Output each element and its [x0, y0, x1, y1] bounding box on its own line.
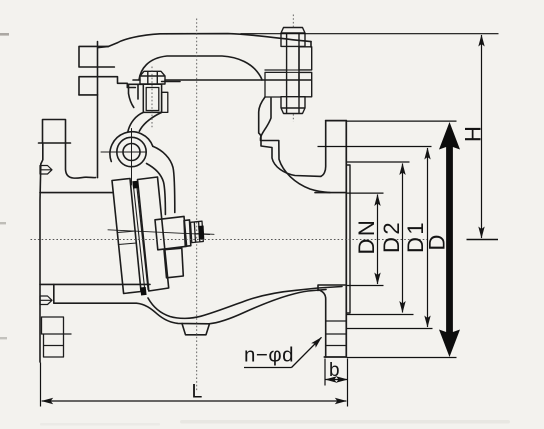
D2 dimension line — [402, 164, 404, 313]
stud bottom nut — [281, 97, 305, 114]
inlet bore top line — [40, 192, 113, 194]
disc nut — [191, 221, 204, 242]
gasket black square top — [132, 181, 138, 189]
left flange bolt ladder — [42, 317, 72, 357]
hinge arm inner curve — [147, 164, 166, 215]
disc guide tab — [164, 248, 183, 278]
right flange bottom edge — [324, 356, 346, 358]
right flange left edge lower — [319, 290, 326, 357]
hinge cross vertical — [131, 129, 133, 186]
flange top extension for D — [347, 120, 457, 122]
svg-text:b: b — [329, 360, 340, 381]
bonnet joint lines left of stud — [265, 70, 287, 97]
bottom drain boss bump — [182, 324, 210, 335]
packing gland inner — [146, 88, 159, 111]
seat ring — [112, 179, 141, 294]
packing left piece — [129, 84, 139, 107]
packing base line right — [162, 81, 180, 83]
hinge cross horizontal — [101, 151, 147, 153]
bonnet neck left — [128, 112, 143, 131]
disc hub — [155, 216, 187, 249]
L dimension line — [42, 400, 347, 402]
b dimension arrows — [325, 379, 347, 381]
disc gasket strip — [133, 182, 148, 290]
packing base line left — [129, 83, 144, 85]
hinge pin outer circle — [117, 137, 146, 166]
packing centerline — [151, 67, 153, 129]
body flange plate right of stud — [299, 72, 312, 96]
left flange hub top box — [43, 120, 66, 144]
bonnet cover right edge — [310, 42, 312, 47]
b left extension line — [324, 359, 326, 386]
D1 top extension — [318, 146, 432, 148]
left flange top edge — [39, 142, 71, 144]
n-phi-d leader with arrow — [292, 337, 322, 367]
inlet bore bottom line — [40, 283, 150, 285]
outlet bore bottom line — [318, 285, 346, 291]
body barrel left wall — [97, 42, 99, 178]
top extension line for H — [241, 33, 499, 35]
packing right piece — [162, 92, 168, 112]
bonnet neck right — [139, 112, 161, 131]
bonnet gasket line — [133, 79, 311, 81]
lower arm bottom edge — [79, 94, 98, 96]
DN bottom extension — [347, 285, 384, 287]
bonnet cover top line — [98, 34, 311, 48]
stud centerline — [292, 15, 294, 122]
L right extension line — [347, 359, 349, 407]
outlet bore top line — [315, 192, 346, 194]
DN top extension — [347, 192, 384, 194]
scan smudge bottom — [180, 420, 510, 424]
stem pin black — [198, 226, 204, 240]
top-left lower arm — [79, 77, 135, 95]
top-left upper arm — [79, 46, 114, 67]
H bottom tick at centerline — [467, 239, 499, 241]
bonnet inner dome — [139, 56, 262, 80]
main horizontal centerline — [31, 239, 428, 241]
body bowl inner bottom line — [148, 287, 342, 319]
disc washer — [184, 220, 191, 246]
left flange bolt hole mark bottom — [40, 296, 52, 305]
right flange right edge — [345, 121, 347, 357]
right flange top edge — [326, 120, 347, 122]
body outer wall right — [259, 97, 321, 176]
n-phi-d underline — [244, 367, 292, 369]
disc stem axis line — [108, 230, 214, 235]
hinge arm outer curve — [153, 146, 175, 212]
hinge boss outer arc — [110, 132, 153, 162]
gasket black square bottom — [140, 287, 146, 296]
left flange face line — [40, 143, 43, 362]
body inner wall right — [261, 98, 331, 193]
right flange left edge upper — [321, 121, 326, 177]
stud shaft — [287, 46, 299, 96]
L left extension line — [40, 363, 42, 407]
D thick arrow — [439, 122, 460, 357]
inlet hub bottom and body bottom outer line — [54, 284, 326, 323]
right flange bolt ladder — [326, 321, 347, 346]
H dimension line — [481, 35, 483, 238]
svg-text:D2: D2 — [379, 220, 404, 253]
scan marks left edge — [0, 33, 9, 36]
left flange bolt hole mark top — [40, 166, 52, 175]
stud top nut — [281, 28, 305, 47]
inlet hub top profile — [66, 143, 96, 178]
svg-text:DN: DN — [354, 218, 379, 255]
svg-text:H: H — [461, 126, 486, 142]
D2 bottom extension — [347, 314, 414, 316]
hinge pin inner circle — [123, 144, 140, 161]
disc slab — [138, 177, 169, 291]
D1 dimension line — [427, 148, 429, 327]
main vertical centerline — [196, 19, 198, 392]
right flange raised face — [346, 165, 350, 313]
D1 bottom extension — [347, 328, 433, 330]
D2 top extension — [347, 161, 410, 163]
D bottom extension — [347, 357, 457, 359]
joint ticks across stud — [287, 70, 299, 72]
svg-text:L: L — [192, 381, 203, 403]
bonnet flange plate right of stud — [299, 47, 312, 70]
svg-text:n−φd: n−φd — [244, 344, 294, 367]
packing hex nut — [140, 71, 165, 84]
seat ring mid lines — [117, 231, 136, 245]
packing gland outer — [143, 84, 161, 112]
DN dimension line — [377, 195, 379, 285]
svg-text:D: D — [425, 235, 450, 251]
